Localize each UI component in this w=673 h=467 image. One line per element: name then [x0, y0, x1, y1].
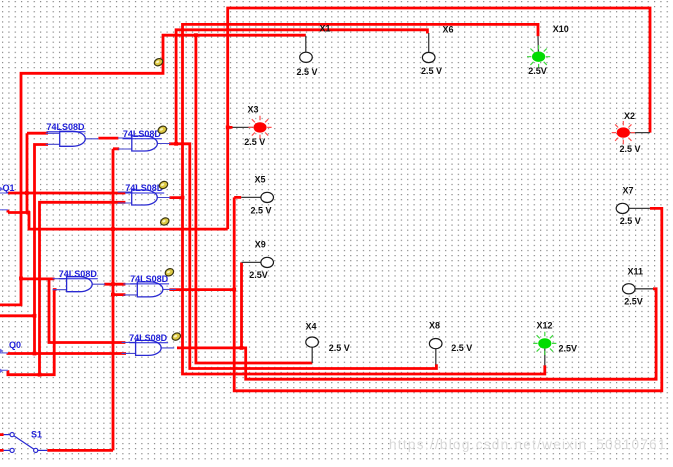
svg-text:74LS08D: 74LS08D: [123, 129, 162, 139]
svg-text:2.5 V: 2.5 V: [451, 343, 472, 353]
svg-text:2.5V: 2.5V: [528, 66, 547, 76]
svg-text:https://blog.csdn.net/weixin_5: https://blog.csdn.net/weixin_50810761: [389, 437, 667, 452]
svg-text:74LS08D: 74LS08D: [129, 333, 168, 343]
svg-text:X9: X9: [255, 240, 266, 250]
svg-text:2.5 V: 2.5 V: [329, 343, 350, 353]
svg-text:X10: X10: [553, 24, 569, 34]
svg-text:X11: X11: [628, 267, 644, 277]
svg-text:2.5 V: 2.5 V: [251, 206, 272, 216]
svg-text:2.5V: 2.5V: [624, 296, 643, 306]
svg-text:74LS08D: 74LS08D: [125, 183, 164, 193]
svg-text:X4: X4: [306, 321, 317, 331]
svg-text:74LS08D: 74LS08D: [130, 274, 169, 284]
svg-text:X12: X12: [537, 321, 553, 331]
svg-text:74LS08D: 74LS08D: [47, 122, 86, 132]
svg-text:Q1: Q1: [3, 183, 15, 193]
svg-text:S1: S1: [31, 430, 42, 440]
svg-text:X1: X1: [320, 23, 331, 33]
svg-text:Q0: Q0: [9, 340, 21, 350]
svg-text:X7: X7: [623, 185, 634, 195]
svg-text:X3: X3: [248, 104, 259, 114]
svg-text:X5: X5: [255, 175, 266, 185]
svg-text:X8: X8: [429, 321, 440, 331]
svg-text:X6: X6: [443, 24, 454, 34]
svg-text:74LS08D: 74LS08D: [59, 269, 98, 279]
svg-text:2.5 V: 2.5 V: [620, 144, 641, 154]
svg-text:X2: X2: [624, 111, 635, 121]
svg-text:2.5 V: 2.5 V: [620, 216, 641, 226]
svg-text:2.5 V: 2.5 V: [421, 66, 442, 76]
svg-text:2.5V: 2.5V: [559, 344, 578, 354]
svg-text:2.5 V: 2.5 V: [244, 137, 265, 147]
svg-text:2.5V: 2.5V: [249, 270, 268, 280]
svg-text:2.5 V: 2.5 V: [297, 67, 318, 77]
